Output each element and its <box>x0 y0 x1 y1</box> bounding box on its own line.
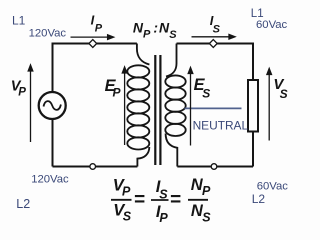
svg-text:NEUTRAL: NEUTRAL <box>193 118 249 132</box>
node secondary top diamond <box>209 40 217 48</box>
svg-text:P: P <box>143 28 151 40</box>
wire secondary bottom <box>177 166 253 168</box>
wire primary top <box>53 43 137 45</box>
arrow VS <box>267 69 272 141</box>
svg-text:P: P <box>18 86 26 98</box>
svg-text:S: S <box>123 210 132 224</box>
arrow VP <box>28 65 33 142</box>
svg-text:P: P <box>113 86 122 100</box>
wire primary bottom <box>53 166 138 168</box>
svg-text:L2: L2 <box>16 197 30 211</box>
svg-text:120Vac: 120Vac <box>31 174 69 186</box>
svg-text:=: = <box>134 189 145 210</box>
wire secondary right lower <box>252 132 254 167</box>
svg-text:P: P <box>122 185 131 199</box>
svg-text:60Vac: 60Vac <box>257 181 289 193</box>
svg-text:S: S <box>202 210 211 224</box>
wire secondary right upper <box>252 43 254 81</box>
AC source V1 <box>39 92 66 119</box>
svg-text:120Vac: 120Vac <box>29 28 67 40</box>
svg-text:60Vac: 60Vac <box>256 19 288 31</box>
sine symbol <box>44 101 61 110</box>
svg-text:S: S <box>213 24 221 36</box>
wire primary left lower <box>52 119 54 167</box>
equation fraction IS/IP bar <box>151 199 169 201</box>
svg-text:L1: L1 <box>12 13 26 27</box>
equation fraction VP/VS bar <box>111 199 132 201</box>
arrow EP <box>122 67 127 145</box>
node primary top diamond <box>89 40 97 48</box>
svg-text:S: S <box>169 29 177 41</box>
svg-text:S: S <box>202 86 210 100</box>
arrow IP <box>71 35 114 40</box>
resistor load <box>248 80 258 132</box>
arrow ES <box>188 68 193 146</box>
node primary bottom junction <box>90 164 96 170</box>
inductor primary winding NP <box>127 44 149 167</box>
neutral tap line <box>185 107 242 109</box>
svg-text:P: P <box>95 22 103 34</box>
wire primary left upper <box>52 43 54 93</box>
inductor secondary winding NS <box>165 44 185 167</box>
svg-text:L2: L2 <box>252 192 266 206</box>
arrow IS <box>192 35 236 40</box>
svg-text:P: P <box>202 184 211 198</box>
svg-text:S: S <box>280 87 288 101</box>
svg-text:P: P <box>159 211 168 225</box>
svg-text:=: = <box>170 189 181 210</box>
node secondary bottom junction <box>211 164 217 170</box>
equation fraction NP/NS bar <box>188 199 208 201</box>
transformer core <box>155 55 160 165</box>
wire secondary top <box>177 43 254 45</box>
svg-text::: : <box>153 19 158 35</box>
